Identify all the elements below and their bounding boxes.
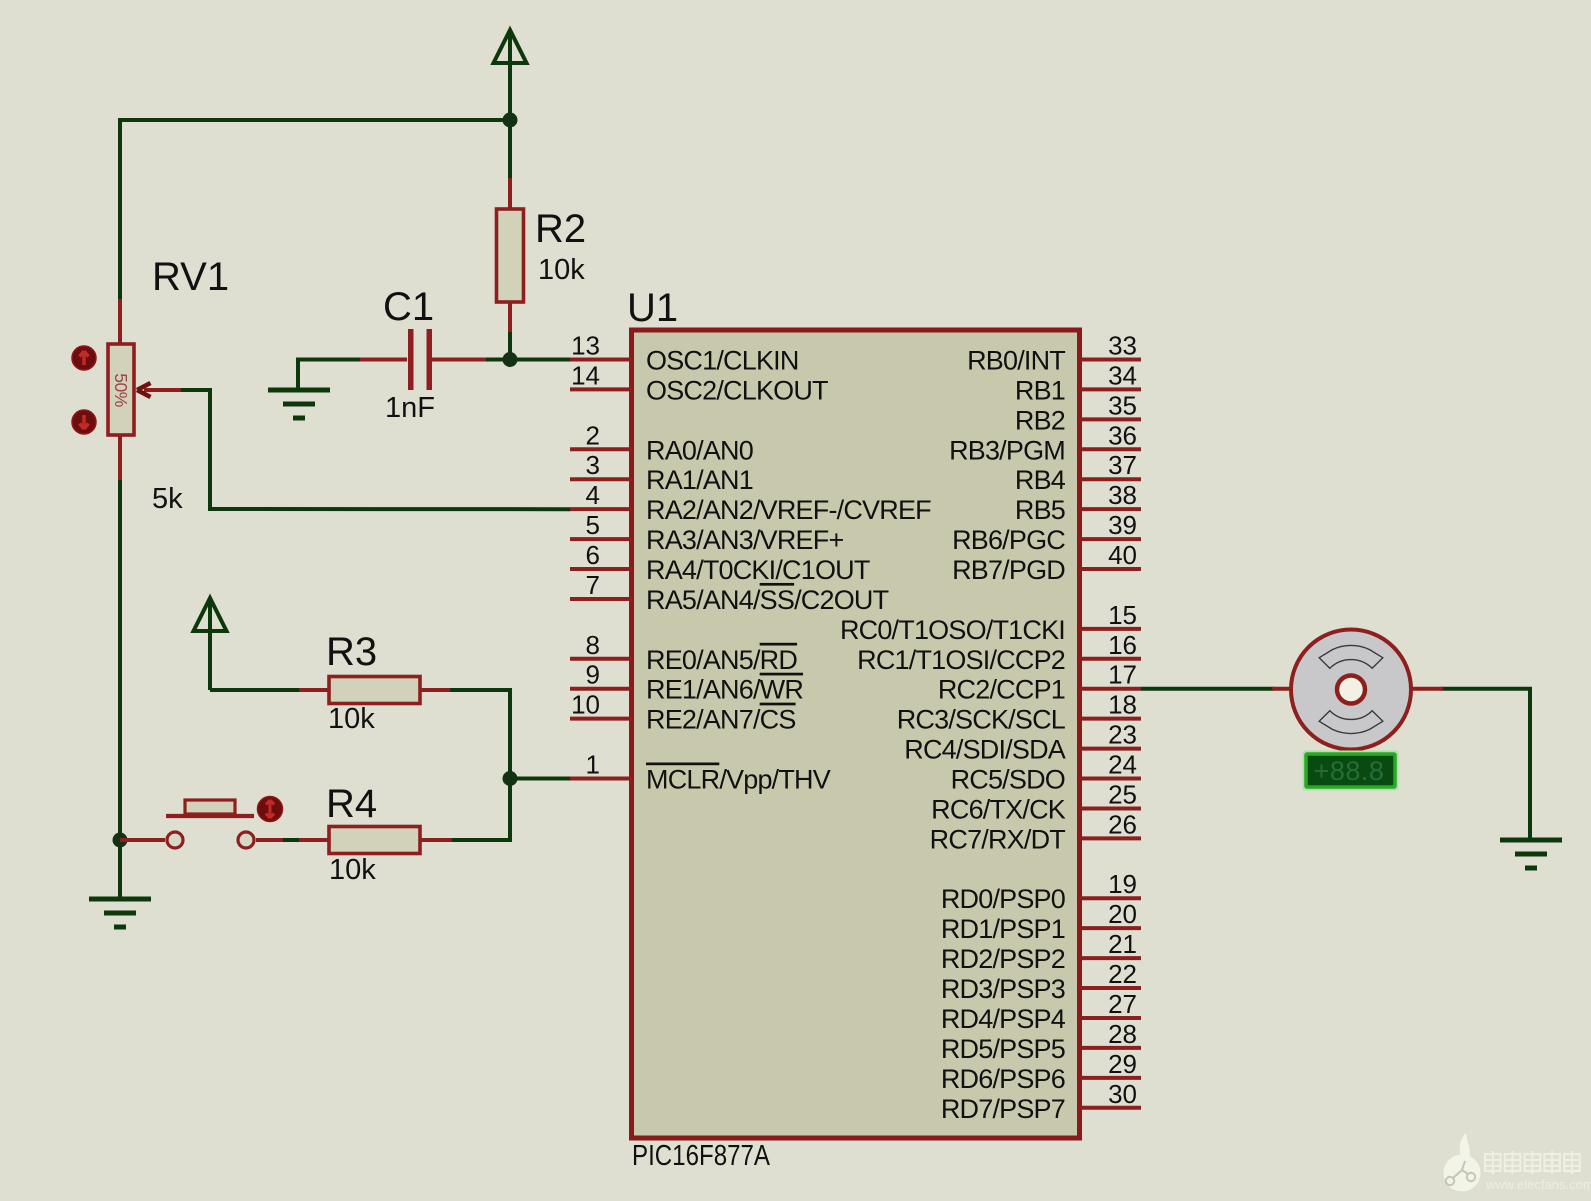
svg-text:35: 35 <box>1108 390 1137 420</box>
U1 pin 8 (RE0/AN5/RD) <box>570 630 797 675</box>
wire: top rail horizontal + left rail down to RV1 <box>120 120 510 301</box>
svg-text:OSC2/CLKOUT: OSC2/CLKOUT <box>646 375 828 405</box>
R4 pin left <box>299 838 331 842</box>
svg-text:7: 7 <box>586 570 600 600</box>
motor speed display +88.8 <box>1304 752 1398 790</box>
svg-text:R2: R2 <box>535 207 586 251</box>
svg-text:RD3/PSP3: RD3/PSP3 <box>941 974 1065 1004</box>
watermark text dianzifashaoyou (CJK strokes) <box>1485 1151 1580 1174</box>
U1 pin 25 (RC6/TX/CK) <box>931 779 1141 824</box>
svg-text:RD1/PSP1: RD1/PSP1 <box>941 914 1065 944</box>
svg-text:50%: 50% <box>111 373 131 407</box>
wire: R3 right to vertical bus <box>448 690 510 840</box>
wire: U1 pin 17 to motor <box>1141 687 1274 691</box>
U1 pin 2 (RA0/AN0) <box>570 420 753 465</box>
svg-text:6: 6 <box>586 540 600 570</box>
U1 pin 19 (RD0/PSP0) <box>941 869 1141 914</box>
svg-text:RD5/PSP5: RD5/PSP5 <box>941 1034 1065 1064</box>
svg-text:5k: 5k <box>152 483 183 515</box>
svg-text:17: 17 <box>1108 660 1137 690</box>
svg-text:OSC1/CLKIN: OSC1/CLKIN <box>646 346 799 376</box>
U1 pin 29 (RD6/PSP6) <box>941 1049 1141 1094</box>
U1 pin 26 (RC7/RX/DT) <box>930 809 1141 854</box>
svg-text:RC1/T1OSI/CCP2: RC1/T1OSI/CCP2 <box>857 645 1065 675</box>
R2 pin top <box>508 178 512 211</box>
svg-text:U1: U1 <box>627 286 678 330</box>
svg-text:RD6/PSP6: RD6/PSP6 <box>941 1064 1065 1094</box>
svg-text:28: 28 <box>1108 1019 1137 1049</box>
ground (motor) <box>1500 840 1562 868</box>
svg-text:RA4/T0CKI/C1OUT: RA4/T0CKI/C1OUT <box>646 555 870 585</box>
wire: power arrow to R3 left <box>208 601 212 690</box>
svg-text:36: 36 <box>1108 420 1137 450</box>
svg-text:RB3/PGM: RB3/PGM <box>949 435 1065 465</box>
U1 pin 23 (RC4/SDI/SDA) <box>904 720 1141 765</box>
svg-text:9: 9 <box>586 660 600 690</box>
C1 pin right <box>432 358 486 362</box>
svg-text:RD2/PSP2: RD2/PSP2 <box>941 944 1065 974</box>
junction node B (OSC1 / C1 / R2) <box>503 352 518 367</box>
motor lower commutator segment <box>1319 711 1383 734</box>
svg-text:23: 23 <box>1108 720 1137 750</box>
svg-text:RE2/AN7/CS: RE2/AN7/CS <box>646 705 796 735</box>
svg-text:RC7/RX/DT: RC7/RX/DT <box>930 824 1066 854</box>
svg-text:10k: 10k <box>328 703 375 735</box>
svg-text:29: 29 <box>1108 1049 1137 1079</box>
svg-text:33: 33 <box>1108 331 1137 361</box>
svg-text:RC5/SDO: RC5/SDO <box>951 765 1065 795</box>
svg-text:30: 30 <box>1108 1079 1137 1109</box>
resistor R3 <box>299 677 450 704</box>
svg-text:16: 16 <box>1108 630 1137 660</box>
svg-text:5: 5 <box>586 510 600 540</box>
U1 pin 20 (RD1/PSP1) <box>941 899 1141 944</box>
U1 pin 14 (OSC2/CLKOUT) <box>570 360 828 405</box>
button left pad <box>167 832 183 848</box>
U1 pin 16 (RC1/T1OSI/CCP2) <box>857 630 1141 675</box>
svg-text:RA0/AN0: RA0/AN0 <box>646 435 753 465</box>
R4 pin right <box>418 838 452 842</box>
svg-text:1nF: 1nF <box>385 392 435 424</box>
svg-text:18: 18 <box>1108 690 1137 720</box>
svg-text:RB5: RB5 <box>1015 495 1065 525</box>
wire: push button to R4 <box>281 838 301 842</box>
svg-text:20: 20 <box>1108 899 1137 929</box>
U1 pin 38 (RB5) <box>1015 480 1141 525</box>
svg-text:C1: C1 <box>383 285 434 329</box>
IC U1 PIC16F877A body <box>632 330 1080 1138</box>
motor pin right <box>1410 687 1443 691</box>
button pin from ground junction <box>120 838 165 842</box>
svg-text:RA5/AN4/SS/C2OUT: RA5/AN4/SS/C2OUT <box>646 585 889 615</box>
U1 pin 6 (RA4/T0CKI/C1OUT) <box>570 540 870 585</box>
svg-text:RA1/AN1: RA1/AN1 <box>646 465 753 495</box>
U1 pin 1 (MCLR/Vpp/THV) <box>570 750 831 795</box>
svg-text:RB6/PGC: RB6/PGC <box>952 525 1065 555</box>
U1 pin 33 (RB0/INT) <box>967 331 1141 376</box>
svg-text:RE1/AN6/WR: RE1/AN6/WR <box>646 675 803 705</box>
U1 pin 27 (RD4/PSP4) <box>941 989 1141 1034</box>
button actuator <box>258 797 283 822</box>
wire: R2 bottom to OSC1 junction <box>508 330 512 360</box>
svg-text:2: 2 <box>586 420 600 450</box>
U1 pin 21 (RD2/PSP2) <box>941 929 1141 974</box>
wire: junction to R2 top <box>508 120 512 182</box>
svg-text:R4: R4 <box>326 782 377 826</box>
U1 pin 10 (RE2/AN7/CS) <box>570 690 796 735</box>
U1 pin 18 (RC3/SCK/SCL) <box>897 690 1141 735</box>
junction node A (VCC rail / R2) <box>503 113 518 128</box>
wire: C1 right plate to OSC1 junction <box>484 358 512 362</box>
svg-text:34: 34 <box>1108 360 1137 390</box>
svg-text:10k: 10k <box>329 854 376 886</box>
RV1 pin bottom <box>118 433 122 480</box>
U1 pin 34 (RB1) <box>1015 360 1141 405</box>
wire: R3 left horizontal <box>210 688 301 692</box>
watermark logo elecfans <box>1444 1133 1481 1192</box>
svg-text:4: 4 <box>586 480 600 510</box>
svg-text:27: 27 <box>1108 989 1137 1019</box>
U1 pin 15 (RC0/T1OSO/T1CKI) <box>840 600 1141 645</box>
U1 pin 3 (RA1/AN1) <box>570 450 753 495</box>
svg-text:+88.8: +88.8 <box>1314 756 1385 786</box>
svg-text:10k: 10k <box>538 254 585 286</box>
wire: RV1 wiper to U1 pin 4 <box>180 390 570 509</box>
U1 pin 22 (RD3/PSP3) <box>941 959 1141 1004</box>
svg-text:RC0/T1OSO/T1CKI: RC0/T1OSO/T1CKI <box>840 615 1065 645</box>
svg-text:RD0/PSP0: RD0/PSP0 <box>941 884 1065 914</box>
svg-text:1: 1 <box>586 750 600 780</box>
ground (C1) <box>268 390 330 418</box>
RV1 wiper arrow <box>144 388 181 392</box>
resistor R4 <box>299 827 452 854</box>
wire: VCC stub above top junction <box>508 33 512 121</box>
svg-text:RD4/PSP4: RD4/PSP4 <box>941 1004 1066 1034</box>
U1 pin 13 (OSC1/CLKIN) <box>570 331 799 376</box>
resistor R2 <box>497 178 524 332</box>
wire: OSC1 junction to U1 pin 13 <box>510 358 570 362</box>
svg-text:13: 13 <box>571 331 600 361</box>
button pin right side <box>256 838 283 842</box>
push button switch <box>120 797 283 849</box>
R3 pin right <box>418 688 450 692</box>
motor M1 <box>1272 630 1443 750</box>
U1 pin 28 (RD5/PSP5) <box>941 1019 1141 1064</box>
svg-text:MCLR/Vpp/THV: MCLR/Vpp/THV <box>646 765 831 795</box>
U1 pin 9 (RE1/AN6/WR) <box>570 660 803 705</box>
motor upper commutator segment <box>1319 645 1383 668</box>
wire: C1 left plate to ground <box>298 360 362 389</box>
R3 pin left <box>299 688 331 692</box>
motor pin left <box>1272 687 1292 691</box>
svg-text:26: 26 <box>1108 809 1137 839</box>
svg-text:25: 25 <box>1108 779 1137 809</box>
svg-text:RB0/INT: RB0/INT <box>967 346 1065 376</box>
U1 pin 36 (RB3/PGM) <box>949 420 1141 465</box>
svg-text:RA3/AN3/VREF+: RA3/AN3/VREF+ <box>646 525 843 555</box>
U1 pin 30 (RD7/PSP7) <box>941 1079 1141 1124</box>
svg-text:24: 24 <box>1108 750 1137 780</box>
RV1 adjust button down <box>72 410 96 434</box>
U1 pin 24 (RC5/SDO) <box>951 750 1141 795</box>
wire: RV1 bottom to ground junction <box>118 478 122 842</box>
svg-text:RB1: RB1 <box>1015 375 1065 405</box>
svg-text:40: 40 <box>1108 540 1137 570</box>
svg-text:22: 22 <box>1108 959 1137 989</box>
power symbol VCC arrow (top rail) <box>494 30 527 63</box>
U1 pin 17 (RC2/CCP1) <box>938 660 1141 705</box>
svg-text:RE0/AN5/RD: RE0/AN5/RD <box>646 645 797 675</box>
svg-text:RC2/CCP1: RC2/CCP1 <box>938 675 1065 705</box>
svg-text:10: 10 <box>571 690 600 720</box>
U1 pin 7 (RA5/AN4/SS/C2OUT) <box>570 570 889 615</box>
svg-text:R3: R3 <box>326 630 377 674</box>
capacitor C1 <box>360 329 486 390</box>
U1 pin 4 (RA2/AN2/VREF-/CVREF) <box>570 480 931 525</box>
svg-text:15: 15 <box>1108 600 1137 630</box>
svg-text:RB7/PGD: RB7/PGD <box>952 555 1065 585</box>
power symbol VCC arrow (R3) <box>194 598 227 631</box>
button right pad <box>238 832 254 848</box>
RV1 adjust button up <box>72 346 96 370</box>
svg-text:3: 3 <box>586 450 600 480</box>
svg-text:RC4/SDI/SDA: RC4/SDI/SDA <box>904 735 1066 765</box>
junction node D (GND rail / button) <box>113 833 128 848</box>
svg-text:PIC16F877A: PIC16F877A <box>632 1140 771 1172</box>
U1 pin 40 (RB7/PGD) <box>952 540 1141 585</box>
svg-text:37: 37 <box>1108 450 1137 480</box>
button cap <box>166 814 254 818</box>
R2 pin bottom <box>508 300 512 332</box>
motor shaft hub <box>1337 676 1365 704</box>
U1 pin 5 (RA3/AN3/VREF+) <box>570 510 843 555</box>
svg-text:38: 38 <box>1108 480 1137 510</box>
ground (left rail) <box>89 899 151 927</box>
svg-text:21: 21 <box>1108 929 1137 959</box>
U1 pin 39 (RB6/PGC) <box>952 510 1141 555</box>
U1 pin 35 (RB2) <box>1015 390 1141 435</box>
U1 pin 37 (RB4) <box>1015 450 1141 495</box>
svg-text:14: 14 <box>571 360 600 390</box>
svg-text:RD7/PSP7: RD7/PSP7 <box>941 1094 1065 1124</box>
potentiometer RV1 <box>72 299 181 480</box>
C1 pin left <box>360 358 407 362</box>
svg-text:8: 8 <box>586 630 600 660</box>
svg-text:RV1: RV1 <box>152 255 229 299</box>
wire: ground junction stub down <box>118 840 122 898</box>
wire: MCLR junction to U1 pin 1 <box>510 777 570 781</box>
RV1 pin top <box>118 299 122 346</box>
svg-text:RC6/TX/CK: RC6/TX/CK <box>931 794 1066 824</box>
svg-text:RC3/SCK/SCL: RC3/SCK/SCL <box>897 705 1066 735</box>
svg-text:19: 19 <box>1108 869 1137 899</box>
svg-text:39: 39 <box>1108 510 1137 540</box>
wire: motor right to ground <box>1441 689 1530 838</box>
svg-text:RA2/AN2/VREF-/CVREF: RA2/AN2/VREF-/CVREF <box>646 495 931 525</box>
svg-text:www.elecfans.com: www.elecfans.com <box>1485 1177 1591 1192</box>
junction node C (MCLR / R3 / R4) <box>503 771 518 786</box>
svg-text:RB2: RB2 <box>1015 405 1065 435</box>
svg-text:RB4: RB4 <box>1015 465 1066 495</box>
